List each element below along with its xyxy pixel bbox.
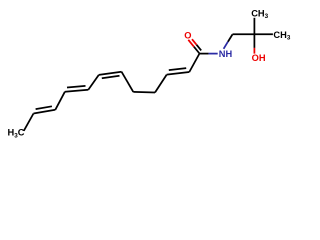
bond N-C1' blue half	[224, 42, 228, 49]
double bond C9=C8 inner line	[67, 86, 86, 88]
svg-text:NH: NH	[219, 49, 233, 59]
double bond C3=C2 inner line	[169, 68, 186, 70]
carbonyl C1=O line1 black half	[194, 47, 200, 54]
cis double bond C7=C6 inner line	[102, 76, 120, 79]
bond C2'-OH red half	[253, 48, 255, 54]
bond N-C1' black half	[228, 34, 233, 41]
bond C2'-CH3 top	[253, 18, 255, 35]
double bond C3=C2 main line	[167, 72, 190, 75]
cis double bond C7=C6 main line	[99, 72, 122, 75]
bond C4-C3	[155, 75, 167, 93]
bond C2-C1	[189, 54, 199, 73]
bond C2'-CH3 right	[255, 33, 273, 35]
svg-text:O: O	[184, 31, 191, 41]
bond C6-C5	[122, 72, 134, 92]
bond C1-N black half	[200, 53, 209, 55]
bond C5-C4	[133, 91, 155, 94]
bond C2'-OH black half	[253, 34, 255, 48]
bond C12-C11	[24, 114, 34, 131]
double bond C9=C8 main line	[65, 90, 88, 92]
carbonyl C1=O line2 black half	[197, 45, 202, 51]
carbonyl C1=O line1 red half	[188, 40, 194, 47]
bond C8-C7	[88, 75, 99, 90]
bond C1'-C2'	[233, 33, 255, 35]
bond C10-C9	[55, 92, 65, 110]
double bond C11=C10 main line	[34, 110, 56, 114]
double bond C11=C10 inner line	[36, 106, 52, 109]
svg-text:OH: OH	[252, 53, 266, 63]
carbonyl C1=O line2 red half	[192, 39, 197, 44]
bond C1-N blue half	[209, 53, 218, 55]
